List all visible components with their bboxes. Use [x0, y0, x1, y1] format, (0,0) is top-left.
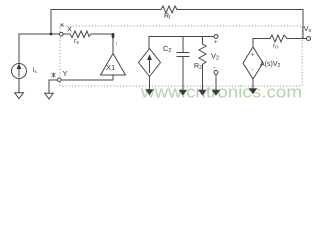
svg-text:-: - [252, 68, 254, 74]
svg-text:Rf: Rf [164, 13, 171, 21]
svg-text:Vo: Vo [304, 24, 312, 34]
svg-text:i: i [116, 41, 118, 47]
svg-text:ro: ro [273, 43, 278, 51]
svg-text:R2: R2 [194, 63, 202, 71]
svg-text:X: X [67, 25, 72, 34]
svg-text:Y: Y [63, 69, 68, 78]
svg-text:rx: rx [74, 38, 79, 46]
svg-text:Is: Is [33, 67, 38, 74]
svg-text:V2: V2 [211, 52, 219, 62]
svg-text:+: + [251, 53, 255, 59]
svg-text:www.cntronics.com: www.cntronics.com [140, 83, 302, 102]
svg-text:-: - [214, 65, 216, 71]
svg-text:X1: X1 [106, 63, 115, 72]
svg-text:A(s)V2: A(s)V2 [260, 61, 281, 69]
svg-text:+: + [214, 40, 218, 46]
svg-text:C2: C2 [163, 44, 171, 54]
